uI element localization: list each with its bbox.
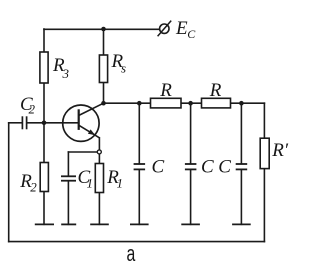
node dot Rs top (101, 27, 106, 32)
wire emitter to output circle (98, 138, 100, 150)
wire C1 top lead (67, 152, 69, 175)
wire right corner down to R' (263, 103, 265, 138)
wire input stub left (9, 122, 22, 124)
wire C2 to base junction (27, 122, 44, 124)
capacitor C1 plates (61, 176, 76, 180)
wire C ladder branch 1 top (138, 103, 140, 163)
capacitor C plates (ladder 3) (236, 164, 248, 169)
svg-text:s: s (121, 61, 126, 76)
wire bottom bus (9, 241, 265, 243)
ground bar C ladder 2 (181, 223, 200, 225)
wire C ladder branch 2 bottom (190, 171, 192, 225)
svg-text:2: 2 (30, 180, 37, 195)
wire R box1 to R box2 (181, 102, 202, 104)
wire output circle to R1 top (98, 154, 100, 163)
node dot ladder 3 (239, 101, 244, 106)
transistor base bar (78, 109, 80, 130)
wire C ladder branch 1 bottom (138, 171, 140, 225)
ground bar C ladder 1 (130, 223, 149, 225)
svg-text:C: C (201, 157, 214, 178)
transistor emitter lead (79, 125, 100, 138)
svg-text:3: 3 (62, 66, 70, 81)
terminal Ec circle (160, 24, 169, 33)
transistor VT circle (63, 105, 99, 141)
wire left column (R3 top lead) (43, 29, 45, 52)
wire Rs bottom to collector node (103, 83, 105, 104)
wire C ladder branch 3 bottom (240, 171, 242, 225)
svg-text:E: E (175, 18, 188, 39)
emitter output terminal circle (97, 150, 101, 154)
svg-text:R: R (159, 80, 172, 101)
svg-text:1: 1 (117, 176, 124, 191)
resistor R (first, horizontal) (151, 98, 182, 108)
svg-text:C: C (152, 157, 165, 178)
wire Rs top lead (103, 29, 105, 55)
capacitor C2 plates (22, 116, 26, 129)
wire R box2 to right corner (231, 102, 265, 104)
resistor R3 (40, 52, 48, 83)
ground bar C1 (61, 223, 76, 225)
wire R2 bottom lead (43, 192, 45, 225)
node dot collector (101, 101, 106, 106)
svg-text:2: 2 (29, 102, 36, 117)
capacitor C plates (ladder 1) (134, 164, 146, 169)
node dot ladder 2 (188, 101, 193, 106)
wire R1 bottom lead (98, 193, 100, 225)
svg-text:R′: R′ (271, 140, 289, 161)
transistor emitter arrow (88, 129, 95, 135)
wire R' bottom lead (263, 169, 265, 242)
wire C1 bottom lead (67, 182, 69, 225)
wire emitter node to C1 (68, 151, 97, 153)
resistor R (second, horizontal) (202, 98, 231, 108)
svg-text:a: a (127, 241, 136, 265)
resistor Rs (99, 55, 107, 83)
wire top rail (44, 28, 159, 30)
node dot ladder 1 (137, 101, 142, 106)
wire left rail down (8, 123, 10, 242)
transistor collector lead (79, 103, 104, 115)
resistor R2 (40, 163, 48, 192)
svg-text:R: R (209, 80, 222, 101)
node dot base junction (42, 121, 47, 126)
svg-text:C: C (187, 27, 196, 41)
capacitor C plates (ladder 2) (185, 164, 197, 169)
svg-text:C: C (218, 157, 231, 178)
resistor R' (260, 138, 269, 168)
wire R3 bottom to base junction to R2 top (43, 83, 45, 163)
ground bar C ladder 3 (232, 223, 251, 225)
resistor R1 (95, 164, 103, 193)
svg-text:1: 1 (87, 176, 94, 191)
ground bar R2 (35, 223, 54, 225)
wire collector node to R box1 (104, 102, 151, 104)
ground bar R1 (90, 223, 109, 225)
wire C ladder branch 2 top (190, 103, 192, 163)
terminal Ec slash (158, 21, 172, 37)
wire C ladder branch 3 top (240, 103, 242, 163)
wire base lead (44, 122, 78, 124)
